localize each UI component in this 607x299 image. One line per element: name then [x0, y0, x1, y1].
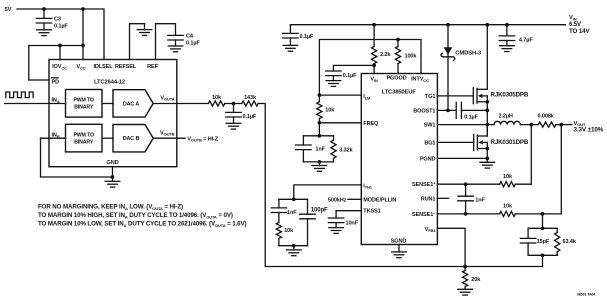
svg-text:IDLSEL: IDLSEL [93, 64, 113, 70]
svg-text:IOVCC: IOVCC [52, 64, 67, 70]
svg-text:0.1µF: 0.1µF [243, 114, 257, 120]
wire [278, 213, 280, 223]
svg-text:63.4k: 63.4k [563, 239, 577, 245]
svg-text:0.1µF: 0.1µF [186, 40, 200, 46]
wire ITH bottom spread [279, 245, 308, 247]
svg-text:2.2k: 2.2k [380, 52, 391, 58]
wire [464, 267, 466, 271]
svg-text:TO MARGIN 10% HIGH, SET INA DU: TO MARGIN 10% HIGH, SET INA DUTY CYCLE T… [38, 212, 233, 219]
junction Q1 source [485, 100, 489, 104]
capacitor 0.1uF plates [226, 112, 241, 117]
wire FREQ pin [319, 122, 361, 124]
block PWM TO BINARY A [66, 90, 103, 118]
svg-text:10nF: 10nF [346, 220, 359, 226]
resistor 10k (VOUTA) [208, 101, 225, 106]
junction 5V/C3 [42, 7, 46, 11]
wire INB to GND [41, 138, 113, 177]
ground VIN pin cap [326, 81, 341, 87]
wire INTVCC to ILM [319, 40, 421, 102]
junction rail/4.7uF [505, 23, 509, 27]
svg-text:VCC: VCC [76, 64, 85, 70]
svg-text:DAC A: DAC A [123, 102, 139, 108]
svg-text:10k: 10k [503, 174, 513, 180]
wire 10k to FREQ node [318, 119, 320, 136]
wire TG1 to gate [437, 95, 473, 97]
svg-text:3.3V ±10%: 3.3V ±10% [574, 126, 604, 133]
junction divider top [541, 226, 545, 230]
wire [278, 238, 280, 245]
svg-text:1nF: 1nF [287, 210, 297, 216]
ground REFSEL [137, 30, 152, 36]
ground ITH [287, 250, 302, 256]
svg-text:VOUTA: VOUTA [160, 96, 174, 102]
wire rail to 2.2k [373, 25, 375, 47]
ground SGND [398, 245, 400, 252]
svg-text:GND: GND [107, 160, 119, 166]
junction diode/boost [446, 109, 450, 113]
svg-text:INTVCC: INTVCC [411, 77, 429, 83]
capacitor plates [326, 71, 341, 76]
junction L/sense+ [529, 123, 533, 127]
svg-text:500kHz: 500kHz [328, 197, 347, 203]
junction VCC [81, 44, 85, 48]
capacitor 0.1uF (VOUTA filter) [233, 104, 235, 113]
wire SENSE1+ [437, 183, 499, 185]
svg-text:C4: C4 [186, 34, 194, 40]
ground VOUTA filter [226, 123, 241, 129]
wire [333, 136, 335, 140]
ground VIN cap [283, 45, 298, 51]
block PWM TO BINARY B [66, 124, 103, 152]
wire PWM A to DAC A [102, 103, 113, 105]
wire divider top spread [528, 227, 557, 229]
svg-text:CMDSH-3: CMDSH-3 [455, 51, 482, 57]
junction GND [111, 175, 115, 179]
svg-text:BG1: BG1 [424, 140, 435, 146]
svg-text:15pF: 15pF [537, 239, 550, 245]
wire INA input [5, 103, 66, 105]
wire VIN pin filter [333, 65, 374, 71]
svg-text:VOUTB: VOUTB [160, 131, 175, 137]
svg-text:10k: 10k [212, 95, 222, 101]
wire GND pin stub [112, 167, 114, 182]
IC U2 LTC3850EUF body [361, 74, 437, 245]
junction sense-/divider [541, 212, 545, 216]
svg-text:100pF: 100pF [311, 208, 328, 214]
wire sense+ to inductor [515, 125, 531, 185]
junction 100k top [396, 38, 400, 42]
wire VCC pin stub [82, 9, 84, 60]
wire 100k to PGOOD [397, 64, 399, 74]
svg-text:LTC3850EUF: LTC3850EUF [382, 90, 417, 96]
wire ITH top spread [279, 198, 308, 200]
wire BOOST1 [437, 109, 456, 111]
svg-text:DAC B: DAC B [123, 136, 140, 142]
wire [302, 136, 304, 145]
junction sense cap bottom [464, 212, 468, 216]
wire to PD pin [29, 79, 49, 81]
block DAC B [113, 125, 153, 152]
wire [465, 184, 467, 196]
wire ILM pin [319, 94, 361, 96]
wire divider to rail [542, 255, 544, 266]
svg-text:10k: 10k [325, 108, 335, 114]
resistor 10k (ILM-FREQ divider) [317, 102, 322, 119]
wire rail to cap [289, 25, 291, 34]
junction rail/Q1 drain [485, 23, 489, 27]
wire REFSEL pin [130, 24, 145, 60]
wire TKSS1 [336, 210, 361, 212]
wire Q2 source to ground [486, 142, 488, 162]
ground C4 [168, 46, 183, 52]
svg-text:VIN: VIN [569, 15, 577, 21]
junction Q2 source [485, 147, 489, 151]
junction ITH bottom [292, 244, 296, 248]
wire REF pin [156, 24, 176, 60]
ground freq filter [312, 166, 327, 172]
wire sense- to VOUT [515, 125, 561, 214]
wire to divider top [542, 214, 544, 228]
wire IOVCC pin stub [59, 46, 61, 60]
resistor 10k (ITH) [276, 223, 281, 239]
svg-text:BINARY: BINARY [74, 139, 94, 145]
wire [506, 25, 508, 36]
wire VOUTB stub [153, 137, 185, 139]
svg-text:0.1µF: 0.1µF [300, 34, 314, 40]
svg-text:5V: 5V [5, 7, 12, 13]
junction freq filter bottom [318, 160, 322, 164]
svg-text:20k: 20k [471, 277, 481, 283]
junction rail/2.2k [372, 23, 376, 27]
svg-text:RJK0305DPB: RJK0305DPB [491, 92, 529, 99]
svg-text:0.1µF: 0.1µF [54, 23, 68, 29]
svg-text:2.2µH: 2.2µH [499, 113, 513, 119]
wire Q2 drain to SW [486, 125, 488, 136]
junction 5V/VCC [81, 7, 85, 11]
wire RUN1 stub [437, 197, 448, 199]
wire to 100k [397, 40, 399, 47]
svg-text:PD: PD [52, 79, 60, 85]
wire [302, 150, 304, 162]
svg-text:TO 14V: TO 14V [569, 28, 590, 35]
capacitor 4.7uF plates [499, 36, 514, 41]
wire diode branch [447, 25, 449, 111]
svg-text:FREQ: FREQ [363, 121, 379, 127]
svg-text:PGND: PGND [420, 156, 436, 162]
wire BG1 to gate [437, 141, 473, 143]
node INA square-wave input [6, 92, 33, 98]
capacitor 1nF plates [458, 196, 473, 201]
wire [307, 219, 309, 246]
wire INB input [41, 137, 66, 139]
junction VIN pin/filter cap [372, 64, 376, 68]
svg-text:SENSE1+: SENSE1+ [412, 181, 436, 189]
capacitor C3 0.1uF [43, 9, 45, 18]
wire SENSE1- [437, 213, 499, 215]
inductor L1 2.2uH [494, 121, 520, 124]
svg-text:ITH1: ITH1 [363, 184, 373, 190]
svg-text:0.008k: 0.008k [538, 113, 555, 119]
capacitor C4 plates [168, 35, 183, 40]
ground GND pin [105, 181, 120, 187]
ground power [480, 162, 495, 168]
svg-text:SW1: SW1 [424, 123, 436, 129]
ground 4.7uF [500, 46, 515, 52]
capacitor 1nF plates [296, 145, 311, 150]
svg-text:0.1µF: 0.1µF [464, 115, 478, 121]
junction ILM [318, 93, 322, 97]
junction ITH top [292, 197, 296, 201]
resistor 63.4k [555, 232, 560, 251]
capacitor 100pF plates [300, 214, 315, 219]
resistor 143k [242, 101, 259, 106]
ground TKSS [329, 228, 344, 234]
svg-text:1nF: 1nF [315, 146, 325, 152]
wire to VOUT [556, 124, 572, 126]
block DAC A [113, 90, 153, 117]
junction VFB rail/20k [463, 265, 467, 269]
resistor 0.008k sense [538, 122, 556, 127]
capacitor C3 plates [36, 18, 51, 23]
svg-text:SENSE1−: SENSE1− [412, 210, 436, 218]
svg-text:100k: 100k [405, 54, 418, 60]
svg-text:TKSS1: TKSS1 [363, 209, 380, 215]
svg-text:MODE/PLLIN: MODE/PLLIN [363, 197, 396, 203]
junction SW [485, 123, 489, 127]
wire 2.2k to VIN pin [373, 64, 375, 74]
svg-text:BOOST1: BOOST1 [413, 108, 435, 114]
svg-text:LTC2644-12: LTC2644-12 [94, 79, 125, 85]
svg-text:TG1: TG1 [425, 94, 435, 100]
wire [556, 228, 558, 232]
svg-text:RUN1: RUN1 [421, 196, 436, 202]
wire PWM B to DAC B [102, 137, 113, 139]
resistor 100k [395, 47, 400, 64]
junction sense cap top [464, 182, 468, 186]
wire boost cap to SW node [461, 109, 487, 111]
diode D1 CMDSH-3 [444, 47, 453, 54]
wire SW1 [437, 124, 494, 126]
capacitor 15pF plates [520, 238, 535, 243]
IC U1 LTC2644-12 body [49, 60, 177, 167]
svg-text:SGND: SGND [391, 239, 407, 245]
wire [465, 201, 467, 214]
svg-text:PWM TO: PWM TO [73, 98, 94, 104]
wire PGND [437, 157, 487, 159]
svg-text:143k: 143k [244, 95, 257, 101]
svg-text:BINARY: BINARY [74, 105, 94, 111]
resistor 10k (SENSE1-) [500, 211, 516, 216]
wire ITH1 [294, 185, 362, 199]
junction rail/diode [446, 23, 450, 27]
resistor 10k (SENSE1+) [500, 182, 516, 187]
wire 10k to 143k [225, 103, 242, 105]
svg-text:0.1µF: 0.1µF [343, 73, 357, 79]
svg-text:3.32k: 3.32k [339, 148, 353, 154]
ground SGND bars [392, 252, 407, 258]
svg-text:RJK0301DPB: RJK0301DPB [491, 139, 529, 146]
svg-text:PWM TO: PWM TO [73, 132, 94, 138]
wire [307, 199, 309, 214]
junction IOVCC [58, 44, 62, 48]
resistor 2.2k [372, 47, 377, 64]
wire VOUTA [153, 103, 208, 105]
wire divider bottom spread [528, 254, 557, 256]
junction divider bottom [541, 253, 545, 257]
wire VIN rail [290, 24, 565, 26]
wire [556, 252, 558, 256]
svg-text:REFSEL: REFSEL [115, 64, 137, 70]
junction RC filter [232, 102, 236, 106]
wire [335, 211, 337, 218]
svg-text:VIN: VIN [370, 77, 378, 83]
svg-text:ILM: ILM [363, 94, 371, 100]
svg-text:C3: C3 [54, 17, 61, 23]
junction VOUT [559, 123, 563, 127]
svg-text:PGOOD: PGOOD [386, 76, 406, 82]
resistor 20k [463, 271, 468, 287]
wire MODE stub [348, 198, 361, 200]
svg-text:REF: REF [147, 64, 158, 70]
capacitor 1nF plates [271, 208, 286, 213]
capacitor 10nF plates [328, 218, 343, 223]
junction PGND [485, 157, 489, 161]
svg-text:4.7µF: 4.7µF [519, 37, 533, 43]
ground C3 [37, 30, 52, 36]
junction freq filter top [318, 134, 322, 138]
svg-text:VFB1: VFB1 [425, 227, 437, 233]
wire [333, 158, 335, 162]
svg-text:10k: 10k [503, 204, 513, 210]
capacitor plates [283, 33, 298, 38]
wire [527, 228, 529, 238]
wire 143k to VFB rail [258, 104, 542, 267]
wire 5V rail to IDLSEL pin [17, 9, 104, 60]
ground 20k [458, 289, 473, 295]
svg-text:10k: 10k [284, 228, 294, 234]
junction FREQ [318, 121, 322, 125]
wire [527, 243, 529, 255]
wire filter bottom spread [303, 161, 333, 163]
wire [278, 199, 280, 208]
wire L to Rsense [520, 124, 538, 126]
svg-text:1nF: 1nF [475, 198, 485, 204]
wire Q1 drain to rail [486, 25, 488, 90]
svg-text:VOUTB = HI-Z: VOUTB = HI-Z [187, 136, 218, 142]
wire Q1 source to SW [486, 96, 488, 136]
junction boost/SW vertical [485, 109, 489, 113]
svg-text:38501 TA04: 38501 TA04 [577, 293, 595, 297]
wire filter top spread [303, 135, 333, 137]
wire VFB1 to rail [437, 228, 465, 266]
wire PD/IOVCC/VCC bus [29, 46, 83, 81]
